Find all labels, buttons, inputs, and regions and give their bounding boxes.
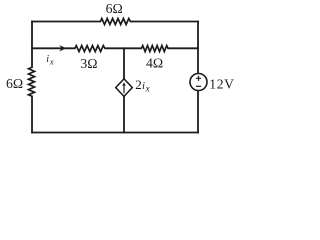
svg-text:x: x [145, 83, 150, 93]
svg-text:i: i [142, 80, 145, 92]
wire top rail right [132, 21, 199, 23]
svg-text:4Ω: 4Ω [146, 56, 163, 71]
svg-text:6Ω: 6Ω [6, 76, 23, 91]
wire right vertical upper [197, 21, 199, 74]
wire right vertical lower [197, 90, 199, 133]
resistor 4ohm [142, 46, 170, 52]
wire middle branch upper [123, 47, 125, 79]
current arrow i_x [59, 45, 66, 51]
svg-text:6Ω: 6Ω [106, 1, 123, 16]
wire left vertical lower [31, 96, 33, 134]
wire middle rail right [169, 47, 199, 49]
svg-text:x: x [49, 56, 54, 66]
svg-text:12V: 12V [209, 76, 234, 91]
wire middle rail center [106, 47, 143, 49]
plus sign of V1 [196, 76, 201, 81]
wire middle rail left [31, 47, 75, 49]
wire left vertical upper [31, 21, 33, 68]
wire middle branch lower [123, 96, 125, 133]
wire bottom rail [31, 132, 199, 134]
resistor 3ohm [75, 46, 106, 52]
wire top rail left [31, 21, 101, 23]
resistor 6ohm top [101, 19, 133, 25]
resistor 6ohm left [29, 68, 35, 97]
minus sign of V1 [196, 85, 201, 87]
dependent current source 2i_x diamond [116, 79, 133, 97]
voltage source V1 12V [190, 74, 207, 91]
arrow inside dependent source [123, 85, 125, 94]
svg-text:2: 2 [135, 77, 142, 92]
svg-text:3Ω: 3Ω [80, 56, 97, 71]
